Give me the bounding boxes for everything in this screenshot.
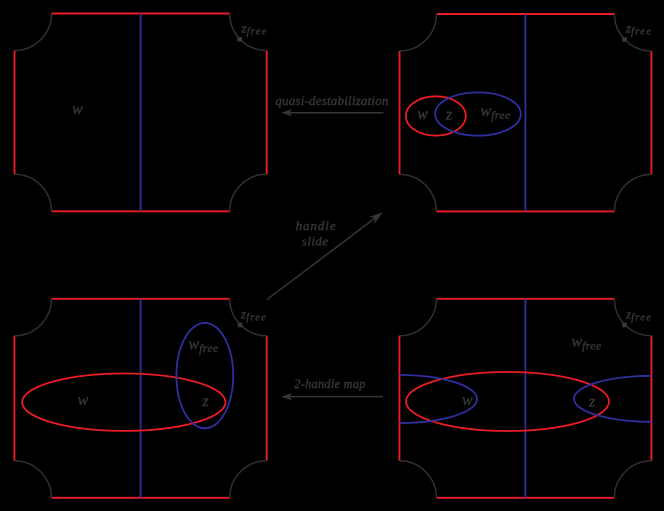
panel2 corner arc bottom-right <box>615 174 652 211</box>
arrow quasi-destabilization (head) <box>281 109 292 116</box>
panel2 bottom edge (red) <box>436 210 614 212</box>
panel3 red alpha ellipse (large) <box>22 374 225 431</box>
svg-text:w: w <box>417 106 428 123</box>
svg-text:z: z <box>445 107 453 124</box>
panel4 blue loop right (through boundary) <box>574 376 652 422</box>
panel4 corner arc top-left <box>399 299 436 336</box>
panel4 corner arc top-right <box>614 299 651 336</box>
arrow 2-handle map (head) <box>281 393 292 400</box>
panel4 beta curve (blue vertical line) <box>524 299 526 498</box>
panel1 basepoint z_free (square dot) <box>237 37 242 42</box>
panel4 left edge (red) <box>398 336 400 461</box>
svg-text:w: w <box>72 101 83 118</box>
panel2 beta curve (blue vertical line) <box>524 14 526 211</box>
panel1 top edge (red alpha arc) <box>52 13 230 15</box>
svg-text:w: w <box>462 392 473 409</box>
panel1 corner arc top-right (boundary) <box>230 14 267 51</box>
panel3 beta curve (blue vertical line) <box>140 299 142 498</box>
panel4 top edge (red) <box>436 298 614 300</box>
panel3 corner arc top-left <box>14 299 51 336</box>
panel3 blue ellipse w_free curve <box>176 323 233 428</box>
arrow handle slide (head) <box>369 212 383 224</box>
panel1 corner arc bottom-left (boundary) <box>15 174 52 211</box>
arrow handle slide (shaft) <box>267 216 378 299</box>
panel3 left edge (red) <box>13 336 15 461</box>
panel2 red circle around w <box>406 96 466 135</box>
panel2 right edge (red) <box>650 51 652 174</box>
panel1 right edge (red) <box>266 51 268 175</box>
panel4 red alpha ellipse (large) <box>406 372 609 431</box>
panel4 corner arc bottom-left <box>399 461 436 498</box>
panel2 corner arc bottom-left <box>400 174 437 211</box>
panel1 corner arc bottom-right (boundary) <box>230 174 267 211</box>
svg-text:handle: handle <box>296 218 337 233</box>
panel2 left edge (red) <box>399 51 401 174</box>
panel2 basepoint z_free (square dot) <box>622 37 627 42</box>
panel4 blue loop left (through boundary) <box>399 375 477 423</box>
panel2 blue ellipse (free stabilization curve) <box>435 92 521 135</box>
panel1 beta curve (blue vertical line) <box>140 14 142 212</box>
panel2 corner arc top-right <box>615 14 652 51</box>
svg-text:w: w <box>78 392 89 409</box>
panel1 corner arc top-left (boundary) <box>15 14 52 51</box>
svg-text:quasi-destabilization: quasi-destabilization <box>275 93 388 108</box>
panel1 bottom edge (red) <box>52 210 230 212</box>
panel3 right edge (red) <box>266 336 268 461</box>
svg-text:z: z <box>201 393 209 410</box>
panel2 corner arc top-left <box>400 14 437 51</box>
panel3 basepoint z_free (square dot) <box>238 323 243 328</box>
panel3 corner arc bottom-right <box>230 461 267 498</box>
panel4 corner arc bottom-right <box>614 461 651 498</box>
panel2 top edge (red) <box>436 13 614 15</box>
panel3 bottom edge (red) <box>51 497 229 499</box>
panel4 right edge (red) <box>650 336 652 461</box>
svg-text:slide: slide <box>302 233 329 248</box>
panel4 basepoint z_free (square dot) <box>622 323 627 328</box>
panel3 corner arc bottom-left <box>14 461 51 498</box>
arrow 2-handle map (shaft) <box>289 396 383 398</box>
panel3 top edge (red) <box>51 298 229 300</box>
panel3 corner arc top-right <box>230 299 267 336</box>
svg-text:z: z <box>588 394 596 411</box>
panel1 left edge (red) <box>14 51 16 175</box>
svg-text:2-handle map: 2-handle map <box>294 377 366 391</box>
arrow quasi-destabilization (shaft) <box>289 112 384 114</box>
panel4 bottom edge (red) <box>436 497 614 499</box>
